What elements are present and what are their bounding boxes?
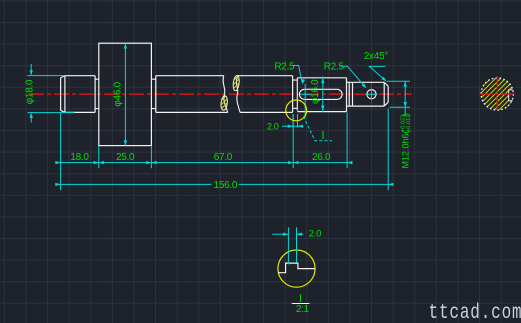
detail view groove profile bbox=[278, 263, 315, 273]
dimension 2.0 groove (main view) bbox=[282, 114, 304, 128]
phi16 section bbox=[297, 78, 346, 112]
dimension M12 extension lines bbox=[387, 81, 410, 116]
svg-text:2.0: 2.0 bbox=[309, 229, 321, 240]
svg-text:2:1: 2:1 bbox=[296, 304, 310, 315]
cross hole vertical centerline bbox=[371, 83, 373, 106]
cross hole center cross bbox=[366, 89, 378, 100]
svg-text:26.0: 26.0 bbox=[312, 152, 331, 163]
disk phi46 bbox=[99, 43, 152, 145]
keyway slot bbox=[299, 89, 342, 99]
detail leader to label I bbox=[303, 116, 332, 140]
centerline main shaft axis bbox=[29, 93, 412, 95]
leader R2.5 left bbox=[292, 66, 302, 83]
svg-text:M12.0h6(: M12.0h6( bbox=[401, 130, 411, 168]
break hatch ellipse upper bbox=[232, 75, 240, 91]
dimension phi16 bbox=[322, 76, 324, 112]
end view keyway notch outline bbox=[509, 90, 513, 101]
svg-text:18.0: 18.0 bbox=[70, 152, 89, 163]
keyway notch in end view (mask) bbox=[509, 89, 515, 101]
shaft section 1 (left phi18) bbox=[61, 76, 96, 113]
M12 thread section bbox=[347, 82, 389, 106]
svg-text:ttcad.com: ttcad.com bbox=[429, 300, 521, 323]
break line right bbox=[236, 76, 240, 113]
detail circle I (main view) bbox=[286, 100, 307, 121]
dimension phi18 left bbox=[27, 64, 74, 123]
svg-text:φ46.0: φ46.0 bbox=[113, 81, 124, 106]
end view hatched circle bbox=[476, 37, 521, 148]
relief groove left of disk bbox=[95, 79, 99, 108]
keyway slot center mark bbox=[300, 84, 311, 118]
end view centerline horizontal bbox=[480, 93, 516, 95]
svg-text:R2.5: R2.5 bbox=[274, 62, 295, 73]
svg-text:156.0: 156.0 bbox=[214, 180, 238, 191]
relief groove right of disk bbox=[151, 79, 155, 108]
dimension line 156.0 bbox=[56, 183, 390, 185]
leader 2x45 chamfer bbox=[369, 66, 385, 80]
svg-text:2.0: 2.0 bbox=[267, 121, 279, 131]
end view centerline vertical bbox=[496, 76, 498, 112]
shaft section 3 (phi18 with break) bbox=[156, 76, 293, 113]
svg-text:+0.012: +0.012 bbox=[406, 115, 412, 132]
shoulder undercut groove (2.0) bbox=[293, 78, 298, 111]
break hatch ellipse lower bbox=[220, 95, 228, 110]
arrows of chain dims bbox=[55, 161, 60, 164]
dimension phi46 bbox=[124, 43, 126, 145]
svg-text:25.0: 25.0 bbox=[116, 152, 135, 163]
svg-text:2x45°: 2x45° bbox=[364, 51, 388, 62]
dimension text M12.0h6 with tolerance bbox=[400, 113, 412, 169]
svg-text:67.0: 67.0 bbox=[214, 152, 233, 163]
detail view dimension 2.0 bbox=[272, 227, 303, 264]
svg-text:R2.5: R2.5 bbox=[324, 62, 345, 73]
svg-text:): ) bbox=[401, 113, 411, 116]
svg-text:φ16.0: φ16.0 bbox=[310, 79, 321, 104]
end view circle outline dotted bbox=[481, 78, 513, 110]
svg-text:φ18.0: φ18.0 bbox=[24, 79, 35, 104]
leader R2.5 right bbox=[340, 66, 365, 87]
detail view circle bbox=[278, 250, 315, 287]
break line left bbox=[223, 76, 228, 113]
svg-text:I: I bbox=[321, 130, 325, 141]
cross hole bbox=[367, 90, 376, 99]
dimension line chain y=162.6 bbox=[56, 162, 353, 164]
bottom dimension chain extension lines bbox=[56, 109, 390, 191]
